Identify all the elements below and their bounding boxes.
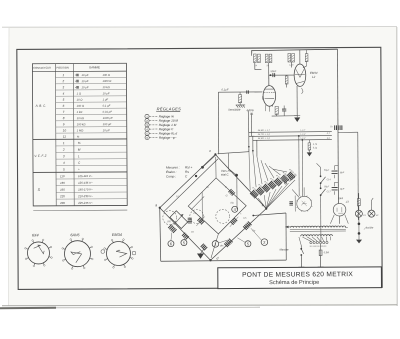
svg-text:1 MΩ: 1 MΩ — [77, 128, 84, 132]
selector tap 3 — [312, 237, 317, 242]
svg-text:125-135 V~: 125-135 V~ — [78, 181, 93, 185]
wire junction dots on range wires — [298, 135, 300, 137]
circled 6 adjust — [168, 241, 174, 247]
decoupling ground triangle — [307, 152, 312, 156]
inner diamond to c link — [215, 157, 217, 178]
pointer line from 5l — [184, 239, 185, 240]
coupling capacitor C1 — [272, 73, 274, 77]
table section divider B/C — [33, 171, 127, 174]
svg-text:10Ω: 10Ω — [167, 221, 171, 223]
scan page left edge — [7, 27, 10, 306]
svg-text:1 kΩ: 1 kΩ — [77, 110, 83, 114]
svg-text:∿ 1,2: ∿ 1,2 — [300, 137, 306, 140]
svg-text:Mesures :: Mesures : — [166, 165, 180, 169]
svg-text:EM34: EM34 — [112, 233, 122, 237]
filter capacitor C15 — [332, 170, 338, 172]
socket side pin circle left — [101, 250, 105, 254]
selector tap 1 — [302, 237, 311, 242]
ground hatch under R8 — [239, 103, 241, 105]
svg-text:1Ω: 1Ω — [191, 232, 194, 234]
svg-text:8µF: 8µF — [340, 188, 345, 191]
inner diamond cross wire — [201, 192, 203, 220]
svg-text:150-170 V~: 150-170 V~ — [78, 187, 93, 191]
range resistor RB4 — [261, 160, 268, 181]
svg-text:10 µF: 10 µF — [103, 128, 110, 132]
table section V.E.F.Z rows — [56, 145, 127, 147]
svg-text:10 µF: 10 µF — [81, 79, 88, 83]
range wire W2 — [249, 135, 332, 138]
bank terminal circles — [284, 182, 286, 184]
svg-text:50µF: 50µF — [324, 170, 330, 172]
svg-text:130: 130 — [60, 181, 65, 185]
svg-text:6X4: 6X4 — [32, 233, 39, 237]
svg-text:0,1 µF: 0,1 µF — [103, 104, 111, 108]
lamp La1 circle-X — [355, 210, 362, 217]
table section A rows — [55, 76, 126, 78]
dropping resistor above lamp — [357, 199, 360, 206]
mesures dot link to c — [202, 154, 216, 167]
tube L1 grid lines — [264, 92, 274, 94]
rotary switch wafer B dashed circle — [190, 209, 204, 223]
title box — [218, 267, 382, 289]
supply box right vertical — [357, 132, 360, 220]
range resistor RB6 — [269, 166, 281, 175]
winding left arrow — [285, 226, 290, 228]
switch wire from primary left — [299, 237, 301, 246]
svg-text:10 Ω: 10 Ω — [77, 98, 83, 102]
socket EM34 circle — [106, 241, 130, 265]
bottom bus wire — [161, 260, 287, 261]
svg-text:d: d — [217, 256, 219, 260]
svg-text:Étalon :: Étalon : — [166, 169, 177, 174]
svg-text:GAMME: GAMME — [89, 65, 100, 69]
socket side pin circle right — [132, 251, 136, 255]
bridge node dots — [159, 207, 161, 209]
table bottom extra line — [33, 209, 127, 212]
lamp La2 circle-X — [368, 210, 375, 217]
wiper arrow on inner left arm — [196, 216, 205, 226]
component hatch on d-b arm upper — [243, 226, 247, 230]
svg-text:100 Ω: 100 Ω — [102, 73, 109, 77]
scan page top edge — [2, 26, 397, 29]
component hatch near d on a-d arm — [201, 244, 204, 247]
contact chain top hook — [316, 163, 320, 167]
range wire W3 — [253, 139, 332, 142]
filter capacitor C16 — [332, 187, 338, 189]
circled 2 adjust — [261, 239, 268, 246]
reglage item 1 circled digit — [145, 114, 149, 118]
transformer primary winding — [301, 235, 333, 237]
bridge arm a-d — [160, 207, 211, 260]
component hatch on d-b arm lower — [224, 243, 228, 247]
range resistor RB7 — [273, 169, 287, 172]
svg-text:6AV6: 6AV6 — [70, 233, 80, 237]
svg-text:2: 2 — [61, 79, 64, 83]
component hatch on a-d arm — [168, 224, 172, 228]
svg-text:100 Ω: 100 Ω — [77, 104, 84, 108]
svg-text:10: 10 — [63, 128, 67, 132]
bridge arm a-c — [159, 154, 215, 207]
svg-text:∿ 1,7: ∿ 1,7 — [300, 129, 306, 132]
pot P1 rotated rect on inner arm — [170, 211, 188, 229]
svg-text:100 µF: 100 µF — [103, 122, 112, 126]
rectifier tube L3 circle — [333, 203, 346, 216]
svg-text:Réglage –φ–: Réglage –φ– — [159, 136, 177, 140]
table outer box — [32, 63, 127, 206]
svg-text:V. E. F. Z: V. E. F. Z — [34, 154, 46, 158]
pointer line from 1 — [219, 240, 229, 243]
scan paper background — [9, 27, 397, 306]
inner arm parallel segment — [191, 196, 204, 209]
selector tap 4 — [317, 237, 321, 242]
svg-text:A. B. C.: A. B. C. — [35, 104, 47, 108]
pot P1 wiper arrow — [174, 214, 184, 225]
mains switch — [300, 245, 302, 248]
svg-text:a: a — [155, 203, 157, 207]
svg-text:L2: L2 — [312, 75, 316, 79]
wires from amp down to range wires — [247, 111, 249, 133]
circled 1 adjust — [212, 241, 219, 248]
vers leader dot — [235, 174, 238, 177]
B+ rail left drop — [250, 51, 252, 56]
svg-text:Schéma de Principe: Schéma de Principe — [269, 280, 319, 286]
svg-text:210-230 V~: 210-230 V~ — [77, 194, 93, 198]
reglage item 5 circled digit — [145, 131, 149, 135]
reglage item 4 circled digit — [145, 127, 149, 131]
wire L2 cathode down — [296, 86, 298, 117]
rotary switch wafer A dashed circle — [163, 211, 177, 225]
mains plug ticks — [298, 266, 304, 268]
svg-text:110: 110 — [60, 174, 65, 178]
L2 pin hook — [302, 88, 304, 92]
svg-text:étal C: étal C — [221, 173, 229, 177]
svg-text:10 kΩ: 10 kΩ — [103, 85, 110, 89]
tube L4 socket circle with spokes — [297, 196, 312, 211]
input series capacitor C2 — [246, 90, 248, 93]
svg-text:100 kΩ: 100 kΩ — [77, 122, 86, 126]
svg-text:1 Ω: 1 Ω — [77, 91, 81, 95]
pointer line from 2 — [251, 228, 262, 240]
svg-text:230: 230 — [59, 201, 65, 205]
component hatch inner lower-right arm — [230, 222, 233, 225]
wiper arrow on inner right arm — [230, 217, 239, 227]
scan page bottom edge — [2, 305, 397, 306]
wire c to range-resistor staircase — [218, 152, 249, 154]
heater vertical to L4 socket 1 — [298, 136, 300, 196]
bridge ground tap — [200, 249, 204, 254]
inner diamond to d link — [211, 234, 219, 258]
transformer secondary winding — [291, 226, 346, 228]
inner bridge diamond — [188, 178, 246, 234]
vertical hatch right of pot — [188, 217, 192, 219]
resistor R4 — [269, 54, 272, 63]
svg-text:R≥l +: R≥l + — [185, 165, 193, 169]
svg-text:0,1µ: 0,1µ — [313, 147, 318, 149]
contact C14 — [320, 175, 322, 177]
L1 bottom pin stubs — [265, 105, 267, 111]
range wire W1 — [249, 131, 332, 134]
svg-text:1000 Ω: 1000 Ω — [102, 79, 111, 83]
ground G1 triangle — [294, 117, 300, 122]
rotary switch wafer C dashed circle — [216, 209, 230, 223]
decoupling resistor under W3 — [308, 143, 311, 150]
svg-text:11: 11 — [63, 135, 66, 139]
galva wire vertical from vers-dot — [236, 176, 238, 209]
component hatch 2 on a-d arm — [182, 233, 185, 236]
resistor R6 — [292, 53, 295, 62]
resistor R5 pair over EM34 — [288, 53, 291, 62]
grid leak resistor R8 — [238, 95, 241, 103]
branch corner down from c-horizontal — [228, 153, 230, 168]
svg-text:50nF: 50nF — [270, 69, 276, 73]
B+ vertical line — [337, 49, 340, 203]
pointer line from 5r — [237, 238, 245, 243]
svg-text:1%: 1% — [193, 213, 196, 215]
lamp2 lead up — [370, 201, 372, 211]
selector tap 6 — [325, 237, 328, 242]
filter resistor R10 horizontal — [334, 125, 336, 130]
table section divider A/B — [33, 138, 127, 141]
range wires left verticals — [248, 132, 250, 148]
reglage item 2 circled digit — [145, 119, 149, 123]
svg-text:10 µF: 10 µF — [82, 85, 89, 89]
tube L2 target fan lines — [296, 69, 300, 77]
svg-text:2M: 2M — [266, 65, 269, 67]
component hatch inner upper-right arm — [228, 189, 231, 192]
svg-text:0,5A: 0,5A — [324, 251, 329, 254]
svg-text:POSITION: POSITION — [56, 66, 69, 70]
coupling wire L1 anode to L2 grid — [268, 75, 270, 85]
resistor R2 — [258, 54, 261, 63]
svg-text:Sensibilité: Sensibilité — [228, 108, 241, 112]
selector tap 5 — [322, 237, 324, 242]
svg-text:2: 2 — [62, 148, 65, 152]
socket 6AV6 circle — [64, 241, 90, 267]
tube L1 6AV6 envelope — [263, 86, 276, 107]
component hatch inner lower-left arm — [197, 218, 200, 221]
heater wires under transformer — [329, 237, 331, 241]
contact chain vertical — [319, 167, 321, 175]
input wire from bridge node c — [217, 92, 219, 154]
reglage item 3 circled digit — [145, 123, 149, 127]
reglage item 6 circled digit — [145, 135, 149, 139]
svg-text:1 µF: 1 µF — [103, 97, 109, 101]
L1 cathode bypass capacitor C3 — [282, 108, 286, 110]
svg-text:R≤: R≤ — [185, 170, 189, 174]
svg-text:10 µF: 10 µF — [81, 73, 88, 77]
svg-text:∿ 1,2: ∿ 1,2 — [300, 133, 306, 136]
svg-text:0,01 µF: 0,01 µF — [103, 110, 113, 114]
mesures leader dot 1 — [201, 166, 204, 169]
svg-text:160: 160 — [60, 188, 65, 192]
small parts left of socket — [289, 201, 293, 203]
bank value labels — [251, 186, 261, 196]
scan page right edge — [396, 27, 398, 306]
fuse F1 — [319, 250, 322, 256]
svg-text:Marche: Marche — [279, 247, 288, 251]
dark smudge bottom-left scan edge — [0, 307, 56, 309]
bridge arm c-b — [218, 158, 266, 209]
supply box top line — [338, 131, 358, 133]
b node wire to right — [253, 213, 286, 215]
grid resistor R7 to ground between stages — [285, 76, 288, 84]
svg-text:44,5Ω ∿ 1,2: 44,5Ω ∿ 1,2 — [258, 137, 271, 140]
bridge arm d-b — [210, 209, 266, 261]
table header row line — [32, 70, 126, 73]
range resistor RB5 — [265, 163, 274, 178]
pointer line from 6 — [171, 233, 172, 241]
resistor R3 pair over L1 anode — [265, 54, 268, 63]
circled 5 adjust right — [245, 241, 251, 247]
B+ rail — [251, 49, 337, 50]
svg-text:110 130 150 220 240: 110 130 150 220 240 — [309, 246, 326, 248]
svg-text:L1: L1 — [250, 112, 254, 116]
svg-text:46,5Ω ∿ 1,7: 46,5Ω ∿ 1,7 — [258, 129, 271, 132]
fuse wire down to mains — [320, 256, 322, 268]
svg-text:10 kΩ: 10 kΩ — [77, 116, 84, 120]
svg-text:10 µF: 10 µF — [103, 91, 110, 95]
resistor R1 group over L1 — [253, 54, 256, 63]
rectifier to transformer wires — [339, 216, 341, 223]
range resistor RB3 — [257, 157, 262, 185]
svg-text:CONTACTEUR: CONTACTEUR — [33, 66, 51, 70]
b wire drop to transformer — [285, 213, 287, 260]
svg-text:1000 µF: 1000 µF — [103, 116, 113, 120]
svg-text:PONT DE MESURES 620 METR: PONT DE MESURES 620 METRIX — [242, 271, 353, 279]
svg-text:0,1µF: 0,1µF — [222, 87, 229, 91]
wire rail drops to tubes — [268, 63, 270, 86]
svg-text:225-245 V~: 225-245 V~ — [77, 201, 93, 205]
svg-text:Comp :: Comp : — [166, 174, 176, 178]
table column lines — [54, 64, 57, 206]
svg-text:44,7Ω ∿ 1,2: 44,7Ω ∿ 1,2 — [258, 133, 271, 136]
drawn border frame — [17, 47, 382, 289]
socket 6X4 circle — [27, 242, 49, 264]
selector tap 2 — [307, 237, 314, 242]
svg-text:b: b — [262, 203, 264, 207]
parallel line above a-c arm — [163, 159, 218, 212]
selector wiper to fuse — [319, 244, 321, 250]
svg-text:50µF: 50µF — [324, 186, 330, 188]
lamp ground arrow — [356, 240, 362, 244]
svg-text:RÉGLAGES: RÉGLAGES — [157, 106, 181, 111]
table section S rows — [56, 178, 127, 180]
caps tie to B+ line — [333, 166, 335, 170]
L1 cathode resistor R9 — [275, 106, 278, 114]
svg-text:220: 220 — [59, 194, 65, 198]
svg-text:6X4: 6X4 — [338, 196, 343, 200]
svg-text:fusible: fusible — [366, 225, 374, 229]
svg-text:8µF: 8µF — [340, 171, 345, 174]
circled 4 adjust — [232, 206, 238, 212]
svg-text:G: G — [226, 194, 228, 197]
cathode ground bus — [272, 115, 298, 117]
range resistor RB2 — [253, 153, 256, 188]
bridge ground triangle — [197, 253, 204, 258]
svg-text:105-115 V~: 105-115 V~ — [78, 174, 93, 178]
lamp1 lead down with dots — [358, 217, 360, 239]
svg-text:%: % — [78, 141, 81, 145]
socket wires up — [303, 187, 305, 196]
circled 5 adjust left — [181, 240, 187, 246]
rectifier internals — [336, 208, 338, 212]
transformer core lines — [290, 228, 346, 230]
range resistor RB1 — [249, 149, 250, 191]
left bus from a down — [160, 208, 161, 262]
contact C17 — [320, 187, 322, 189]
resistor R6b right of EM34 top — [305, 54, 308, 62]
mesures leader dot 2 — [195, 175, 197, 177]
tube L2 EM34 envelope — [294, 64, 306, 86]
heater vertical to L4 socket 2 — [301, 140, 303, 196]
